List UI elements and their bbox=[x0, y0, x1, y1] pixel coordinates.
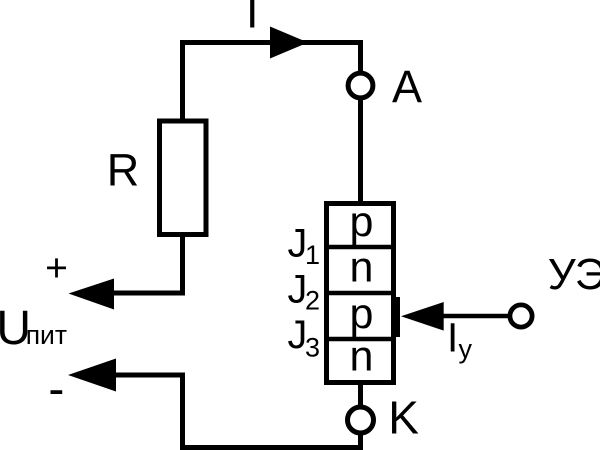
wire: minus corner vertical down bbox=[180, 373, 185, 450]
wire: resistor bottom to plus corner bbox=[180, 235, 185, 296]
svg-text:I: I bbox=[447, 315, 458, 361]
wire: bottom up to node K bbox=[358, 433, 363, 450]
wire: node A to stack bbox=[358, 98, 363, 203]
gate contact bar bbox=[394, 297, 400, 337]
wire: bottom horizontal bbox=[180, 445, 363, 450]
svg-text:A: A bbox=[392, 61, 422, 112]
gate wire bbox=[443, 314, 510, 319]
svg-text:+: + bbox=[45, 247, 68, 290]
svg-text:n: n bbox=[350, 333, 374, 381]
wire: top right vertical into node A bbox=[358, 40, 363, 73]
current arrow on top wire bbox=[270, 27, 308, 59]
wire: plus horizontal bbox=[112, 291, 185, 296]
wire: vertical from top wire down to resistor bbox=[180, 40, 185, 122]
plus arrow bbox=[69, 279, 115, 310]
wire: node K to stack bbox=[358, 382, 363, 407]
wire: minus horizontal bbox=[114, 373, 185, 378]
svg-text:K: K bbox=[388, 392, 419, 444]
node A bbox=[348, 73, 373, 98]
junction line J2 bbox=[324, 291, 396, 296]
node K bbox=[348, 407, 374, 433]
gate terminal circle bbox=[510, 305, 532, 327]
svg-text:1: 1 bbox=[305, 240, 320, 270]
svg-text:пит: пит bbox=[26, 320, 67, 350]
svg-text:I: I bbox=[246, 0, 259, 38]
svg-text:2: 2 bbox=[305, 286, 320, 316]
svg-text:УЭ: УЭ bbox=[548, 250, 600, 299]
junction line J3 bbox=[324, 337, 396, 342]
resistor R bbox=[160, 121, 207, 235]
thyristor p-n-p-n stack bbox=[327, 204, 394, 383]
gate arrow bbox=[401, 302, 444, 331]
svg-text:3: 3 bbox=[305, 333, 320, 363]
junction line J1 bbox=[324, 245, 396, 250]
svg-text:n: n bbox=[350, 244, 374, 292]
svg-text:у: у bbox=[459, 334, 473, 364]
svg-text:R: R bbox=[107, 145, 140, 196]
wire: top horizontal bbox=[180, 40, 363, 45]
svg-text:-: - bbox=[48, 363, 64, 416]
svg-text:p: p bbox=[350, 290, 374, 338]
svg-text:p: p bbox=[350, 198, 374, 246]
minus arrow bbox=[68, 359, 116, 392]
